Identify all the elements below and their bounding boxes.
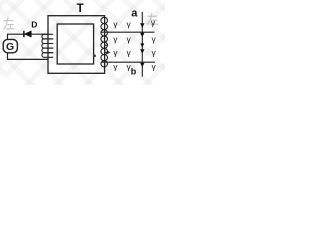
svg-text:γ: γ <box>113 19 118 29</box>
svg-text:γ: γ <box>127 34 132 44</box>
svg-text:γ: γ <box>113 48 118 58</box>
svg-text:γ: γ <box>152 48 157 58</box>
svg-text:D: D <box>31 20 37 30</box>
svg-text:γ: γ <box>127 19 132 29</box>
svg-text:T: T <box>77 3 84 15</box>
svg-text:γ: γ <box>151 17 156 27</box>
svg-text:γ: γ <box>152 62 157 72</box>
svg-text:b: b <box>131 67 137 77</box>
svg-text:γ: γ <box>113 62 118 72</box>
svg-text:γ: γ <box>127 48 132 58</box>
svg-text:γ: γ <box>152 34 157 44</box>
svg-text:γ: γ <box>113 34 118 44</box>
svg-text:a: a <box>131 8 138 20</box>
svg-text:G: G <box>6 41 14 53</box>
